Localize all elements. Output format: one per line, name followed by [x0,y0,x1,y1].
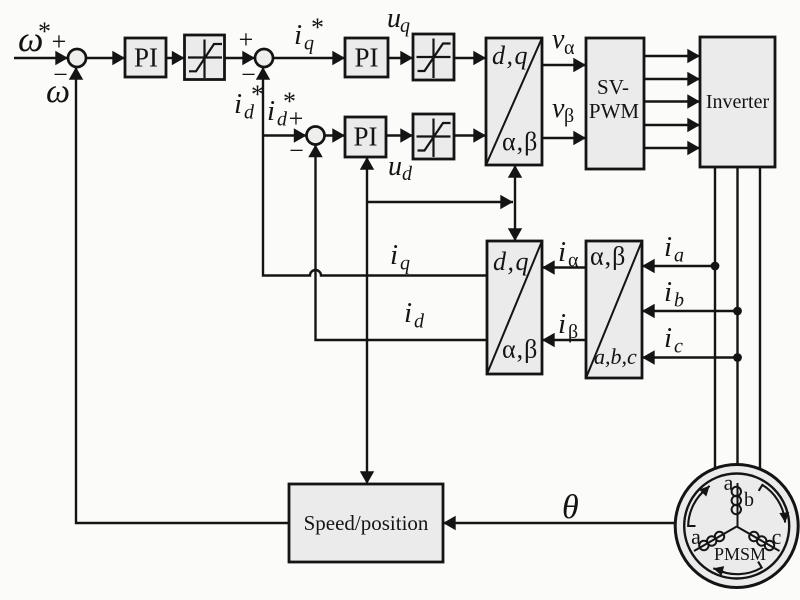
wire SAT2 to Park block [454,57,486,59]
svg-text:PI: PI [354,43,378,73]
block PI3 [345,117,386,157]
svg-text:α,β: α,β [502,335,538,364]
wire theta up to PI3 and down to speed block [366,157,368,484]
wire S3 to PI3 [325,134,346,136]
svg-text:c: c [772,524,782,549]
block Park transform dq to alpha-beta [486,38,542,165]
svg-text:Speed/position: Speed/position [304,511,429,535]
wire PI1 to SAT1 [166,57,185,59]
svg-text:d,q: d,q [492,41,529,70]
svg-text:a,b,c: a,b,c [594,344,637,369]
wire ib tap [642,310,738,312]
block PI2 [345,38,388,77]
wire phase b from inverter [736,167,738,483]
block SAT1 limiter [185,35,225,80]
rotation arc right [759,485,785,523]
block SV-PWM [586,38,644,169]
svg-text:SV-: SV- [597,75,629,99]
block PI1 [125,38,166,77]
svg-text:α,β: α,β [590,242,626,271]
summing junction S2 [255,49,273,67]
block SAT3 limiter [413,114,454,159]
block Clarke alpha-beta/abc [586,241,642,378]
wire SAT1 to S2 [225,57,256,59]
svg-text:PWM: PWM [589,99,640,123]
coil c winding [737,527,780,552]
wire theta branch to transform blocks [367,201,513,203]
svg-text:id: id [404,297,425,333]
svg-text:+: + [239,25,254,54]
label SV-PWM [589,75,640,123]
svg-text:iα: iα [558,236,579,272]
wire pwm signal 5 [644,147,700,149]
wire S1 to PI1 [86,57,125,59]
junction dot ic [733,353,742,362]
motor outer circle [675,465,798,588]
svg-text:ic: ic [664,322,683,358]
svg-text:−: − [289,136,304,165]
svg-text:vα: vα [552,24,575,59]
svg-text:vβ: vβ [552,93,574,127]
wire ia tap [642,265,715,267]
svg-text:PI: PI [134,43,158,73]
svg-text:ud: ud [388,151,413,185]
svg-text:a: a [724,470,734,495]
wire i_alpha [542,266,586,268]
wire PI3 to SAT3 [386,134,413,136]
summing junction S3 [307,127,325,145]
block Park inverse currents dq/alpha-beta [487,241,542,374]
svg-text:b: b [744,489,754,511]
wire v_alpha [542,64,586,66]
svg-text:PI: PI [353,122,377,152]
wire theta between transform blocks [514,165,516,241]
wire v_beta [542,137,586,139]
coil a winding [694,527,737,552]
wire i_beta [542,339,586,341]
wire omega* input [14,57,68,59]
svg-text:ib: ib [664,276,684,312]
svg-text:α,β: α,β [502,127,538,156]
block Inverter [700,37,775,167]
svg-text:a: a [691,524,701,549]
svg-text:ω*: ω* [18,17,51,59]
svg-text:+: + [52,27,67,56]
svg-text:uq: uq [387,3,410,37]
wire ic tap [642,356,738,358]
wire iq feedback with hop [263,67,487,276]
wire pwm signal 4 [644,124,700,126]
rotation arc bottom [713,562,762,575]
wire id* reference branch to S3 [263,134,307,136]
svg-text:d,q: d,q [493,247,530,276]
motor inner circle [684,474,789,579]
wire PI2 to SAT2 [388,57,413,59]
svg-text:θ: θ [562,489,579,526]
wire phase c from inverter [759,167,761,469]
wire SAT3 to Park block [454,134,486,136]
block Speed/position [289,484,443,562]
wire pwm signal 3 [644,100,700,102]
wire pwm signal 1 [644,55,700,57]
wire phase a from inverter [714,167,716,478]
svg-text:Inverter: Inverter [706,91,770,113]
wire id feedback [316,145,488,341]
wire pwm signal 2 [644,78,700,80]
svg-text:ω: ω [46,73,70,110]
svg-text:iq: iq [390,239,410,275]
block SAT2 limiter [413,34,454,80]
wire S2 to PI2 [273,57,345,59]
svg-text:+: + [289,104,304,133]
svg-text:iβ: iβ [558,308,578,343]
summing junction S1 [68,49,86,67]
rotation arc left [688,486,709,526]
junction dot ib [733,307,742,316]
coil b winding [732,483,741,527]
svg-text:ia: ia [664,231,684,267]
svg-text:iq*: iq* [294,13,324,55]
svg-text:PMSM: PMSM [714,544,766,564]
wire theta from motor to speed block [443,522,675,524]
junction dot ia [711,262,720,271]
wire omega feedback to S1 [76,67,289,523]
